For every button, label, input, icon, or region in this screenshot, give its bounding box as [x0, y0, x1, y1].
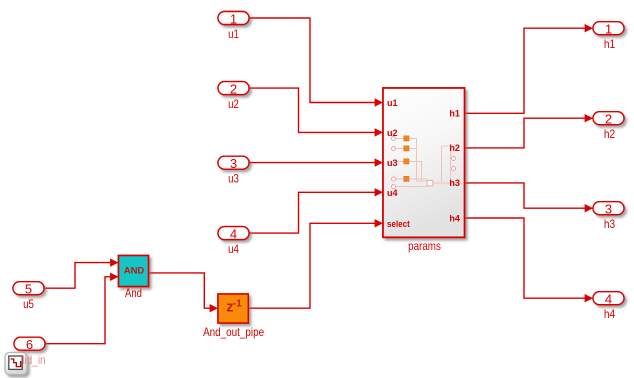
- svg-text:u3: u3: [228, 172, 239, 186]
- svg-text:u3: u3: [387, 158, 398, 169]
- svg-text:h3: h3: [604, 217, 616, 231]
- logic block And: [119, 256, 149, 301]
- wire port3 u3 to params.u3: [249, 162, 375, 164]
- wire port5 u5 to And.in1: [44, 263, 111, 289]
- outport 2: [593, 112, 624, 142]
- svg-text:h2: h2: [604, 127, 616, 141]
- wire params.h2 to outport2: [465, 118, 586, 148]
- params preview bus: [433, 182, 463, 185]
- inport 1: [218, 11, 249, 41]
- outport 4: [593, 292, 624, 322]
- wire And.out to And_out_pipe.in: [149, 273, 211, 308]
- inport 3: [218, 156, 249, 186]
- inport 4: [218, 227, 249, 257]
- svg-text:u2: u2: [228, 97, 239, 111]
- svg-text:h3: h3: [449, 178, 460, 189]
- svg-text:2: 2: [605, 112, 612, 127]
- params preview gateway squares: [404, 136, 409, 182]
- wire params.h4 to outport4: [465, 218, 586, 298]
- params port labels: [387, 98, 461, 230]
- subsystem params: [383, 88, 465, 237]
- svg-text:4: 4: [605, 292, 612, 307]
- wire params.h1 to outport1: [465, 28, 586, 113]
- delay block And_out_pipe: [203, 294, 264, 339]
- svg-text:u2: u2: [387, 128, 398, 139]
- wire port1 u1 to params.u1: [249, 18, 375, 103]
- wire params.h3 to outport3: [465, 183, 586, 208]
- svg-text:h4: h4: [604, 307, 616, 321]
- svg-text:h1: h1: [604, 37, 616, 51]
- wire port4 u4 to params.u4: [249, 192, 375, 233]
- params preview left port circles: [392, 137, 456, 189]
- svg-text:-1: -1: [233, 298, 242, 310]
- svg-text:u5: u5: [23, 297, 34, 311]
- svg-text:3: 3: [605, 202, 612, 217]
- svg-text:AND: AND: [124, 265, 145, 276]
- svg-text:1: 1: [605, 22, 612, 37]
- params preview contents (faded): [396, 139, 453, 187]
- badge icon signal-spec: [5, 353, 27, 375]
- outport 3: [593, 202, 624, 232]
- svg-text:4: 4: [230, 227, 237, 242]
- inport 5: [13, 282, 44, 312]
- outport 1: [593, 22, 624, 52]
- svg-text:select: select: [387, 219, 411, 230]
- svg-text:h4: h4: [449, 213, 460, 224]
- svg-text:5: 5: [25, 282, 32, 297]
- svg-text:1: 1: [230, 11, 237, 26]
- svg-text:2: 2: [230, 82, 237, 97]
- wire port2 u2 to params.u2: [249, 88, 375, 132]
- wire And_out_pipe.out to params.select: [248, 223, 375, 308]
- inport 2: [218, 82, 249, 112]
- svg-text:And: And: [125, 286, 142, 300]
- svg-text:params: params: [408, 239, 441, 253]
- svg-text:lid_in: lid_in: [22, 353, 45, 367]
- svg-text:6: 6: [26, 337, 33, 352]
- svg-text:u1: u1: [228, 27, 239, 41]
- params preview mux box: [427, 180, 433, 186]
- svg-text:3: 3: [230, 156, 237, 171]
- svg-text:And_out_pipe: And_out_pipe: [203, 325, 264, 339]
- svg-text:h1: h1: [449, 109, 460, 120]
- svg-text:h2: h2: [449, 143, 460, 154]
- svg-text:u4: u4: [228, 242, 239, 256]
- svg-text:u4: u4: [387, 188, 398, 199]
- inport 6: [14, 337, 45, 352]
- wire port6 valid_in to And.in2: [45, 277, 111, 344]
- svg-text:u1: u1: [387, 98, 398, 109]
